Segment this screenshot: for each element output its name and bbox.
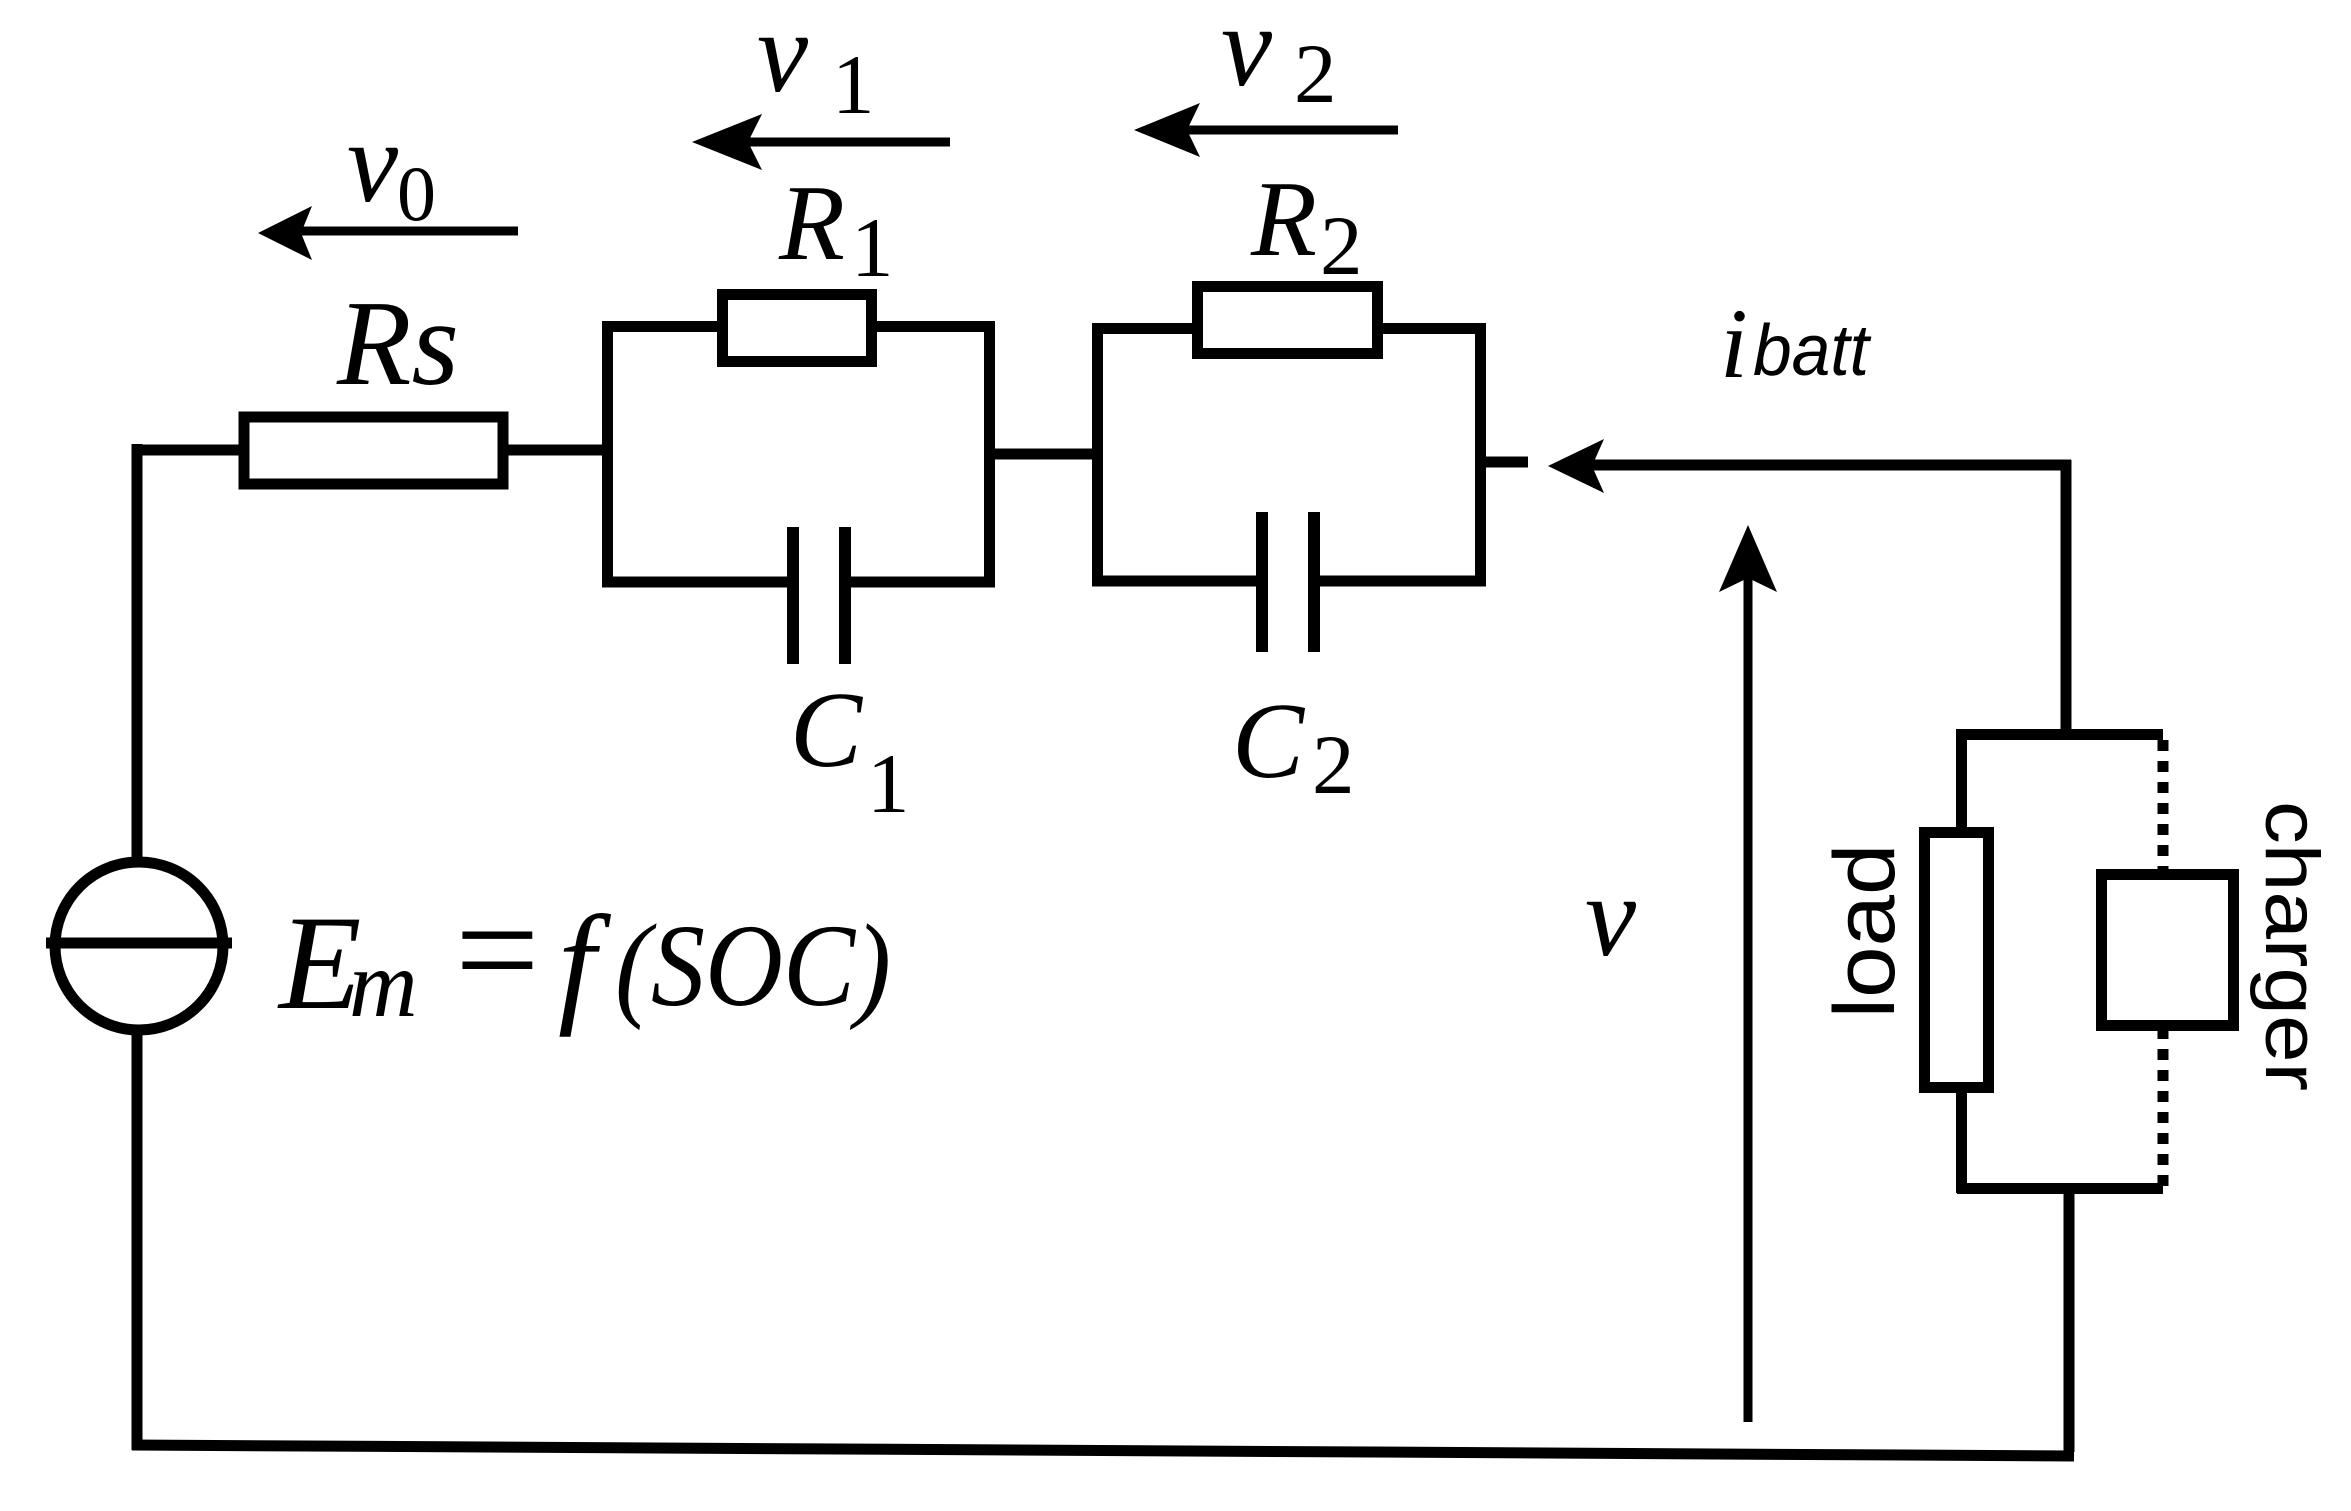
- svg-text:m: m: [349, 931, 418, 1037]
- svg-text:batt: batt: [1753, 311, 1872, 391]
- svg-text:2: 2: [1312, 718, 1355, 812]
- svg-text:1: 1: [851, 201, 894, 295]
- svg-text:2: 2: [1294, 27, 1337, 121]
- svg-text:0: 0: [397, 150, 436, 237]
- svg-text:R: R: [778, 164, 845, 283]
- svg-text:(SOC): (SOC): [615, 900, 891, 1031]
- svg-text:load: load: [1817, 844, 1913, 1019]
- svg-text:v: v: [757, 0, 809, 116]
- svg-text:v: v: [1221, 0, 1273, 110]
- svg-text:Rs: Rs: [336, 276, 459, 411]
- svg-text:i: i: [1720, 288, 1748, 399]
- svg-text:=: =: [455, 867, 540, 1033]
- svg-text:C: C: [790, 671, 864, 790]
- svg-text:charger: charger: [2249, 801, 2334, 1091]
- svg-text:R: R: [1250, 160, 1317, 279]
- svg-text:v: v: [1585, 853, 1637, 980]
- svg-text:C: C: [1232, 682, 1306, 801]
- svg-text:v: v: [347, 99, 399, 226]
- svg-text:2: 2: [1320, 199, 1363, 293]
- svg-text:1: 1: [867, 737, 910, 831]
- svg-text:1: 1: [832, 38, 875, 132]
